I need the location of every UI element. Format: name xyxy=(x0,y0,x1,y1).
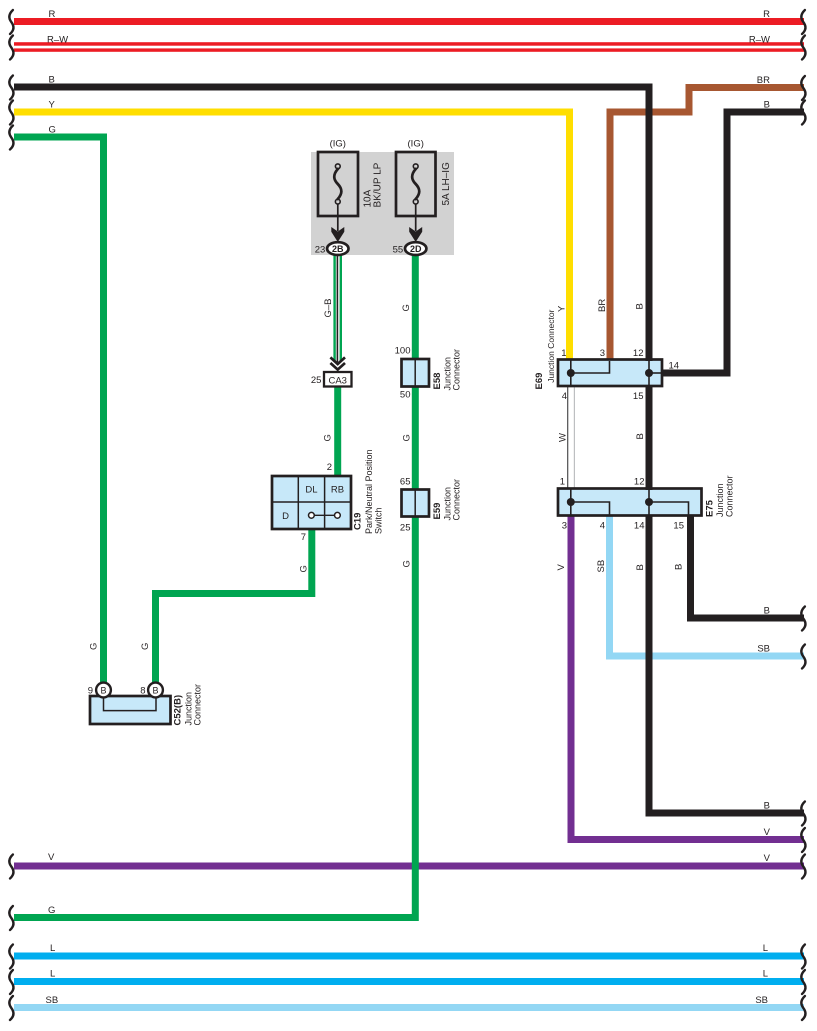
svg-text:1: 1 xyxy=(561,348,566,359)
E75 pin 1 label xyxy=(560,477,565,488)
E69 junction dot pin 12 xyxy=(645,369,653,377)
C19 cell label RB xyxy=(331,485,344,496)
break symbol B right mid xyxy=(801,607,805,631)
wire G-B (green-black) fuse 2B to CA3 xyxy=(333,253,342,362)
svg-text:V: V xyxy=(764,853,771,864)
svg-text:E59: E59 xyxy=(432,503,443,520)
break symbol Y left xyxy=(9,101,13,125)
svg-text:V: V xyxy=(764,827,771,838)
C52(B) pin 9 label xyxy=(88,686,93,697)
break symbol G left top xyxy=(9,126,13,150)
svg-text:Connector: Connector xyxy=(725,475,735,517)
label V right lower xyxy=(764,853,771,864)
label BR right xyxy=(757,75,770,86)
wire G (green) C19 pin 7 to C52(B) pin 8 xyxy=(156,528,312,684)
E69 internal wire pin12-pin15 xyxy=(648,360,650,386)
svg-text:BR: BR xyxy=(757,75,770,86)
break symbol SB left bottom xyxy=(9,996,13,1020)
junction connector E59 box xyxy=(402,490,430,517)
label SB left bottom xyxy=(46,995,59,1006)
break symbol B right top xyxy=(801,101,805,125)
break symbol BR right xyxy=(801,76,805,100)
svg-text:R–W: R–W xyxy=(749,35,770,46)
wire SB (sky blue) E75 pin 4 to right xyxy=(610,515,805,656)
label B vertical top xyxy=(635,303,646,309)
svg-text:B: B xyxy=(764,100,770,111)
wire R (red) top bus xyxy=(14,18,804,25)
wire V (violet) E75 pin 3 to right xyxy=(571,515,804,840)
svg-text:12: 12 xyxy=(633,348,644,359)
break symbol B right low xyxy=(801,802,805,826)
svg-text:W: W xyxy=(558,433,569,442)
svg-text:G: G xyxy=(402,560,413,567)
svg-text:CA3: CA3 xyxy=(328,375,346,386)
svg-text:G: G xyxy=(89,643,100,650)
E69 pin 1 label xyxy=(561,348,566,359)
wire W (white) E69 pin 4 to E75 pin 1 xyxy=(568,386,575,490)
break symbol V right upper xyxy=(801,828,805,852)
E58 pin 50 label xyxy=(400,389,411,400)
svg-text:B: B xyxy=(764,801,770,812)
label G between E58 E59 xyxy=(402,434,413,441)
svg-text:B: B xyxy=(674,564,685,570)
svg-text:E69: E69 xyxy=(534,373,545,390)
E75 internal link pin1-pin4 xyxy=(571,502,610,515)
svg-text:Junction: Junction xyxy=(715,483,725,517)
svg-text:9: 9 xyxy=(88,686,93,697)
label B between E69 and E75 xyxy=(635,433,646,439)
E59 pin 65 label xyxy=(400,476,411,487)
svg-text:B: B xyxy=(635,433,646,439)
label SB right mid xyxy=(757,644,770,655)
E69 junction dot pin 1/4 xyxy=(567,369,575,377)
double chevron splice arrow xyxy=(330,357,345,372)
label V right upper xyxy=(764,827,771,838)
break symbol L left 2 xyxy=(9,970,13,994)
break symbol SB right bottom xyxy=(801,996,805,1020)
wire V (violet) bottom bus xyxy=(14,863,804,870)
svg-text:Switch: Switch xyxy=(374,507,384,534)
junction connector E59 label xyxy=(432,479,462,521)
wire G (green) fuse 2D through E58/E59 to bottom bus xyxy=(14,253,415,918)
junction connector E69 label xyxy=(534,309,556,389)
svg-text:14: 14 xyxy=(669,360,680,371)
E69 internal link pin12-pin14 xyxy=(649,372,663,374)
svg-text:100: 100 xyxy=(395,346,411,357)
break symbol L left 1 xyxy=(9,945,13,969)
E75 internal wire pin1-pin3 xyxy=(570,489,572,515)
svg-text:B: B xyxy=(152,685,158,695)
label R-W right xyxy=(749,35,770,46)
label R right xyxy=(763,9,770,20)
break symbol L right 2 xyxy=(801,970,805,994)
label SB right bottom xyxy=(755,995,768,1006)
junction connector E58 label xyxy=(432,349,462,391)
svg-text:12: 12 xyxy=(634,477,645,488)
svg-text:SB: SB xyxy=(596,560,607,573)
wire Y (yellow) to E69 pin 1 xyxy=(14,112,570,361)
svg-text:G: G xyxy=(402,434,413,441)
E75 pin 14 label xyxy=(634,520,645,531)
svg-text:SB: SB xyxy=(757,644,770,655)
break symbol V right lower xyxy=(801,855,805,879)
park/neutral position switch C19 box xyxy=(272,476,351,529)
label G on C52 pin8 wire xyxy=(140,643,151,650)
C52(B) pin 8 terminal circle B xyxy=(148,683,163,698)
break symbol G left bottom xyxy=(9,906,13,930)
E75 internal wire pin12-pin14 xyxy=(648,489,650,515)
junction connector E75 box xyxy=(558,489,702,516)
svg-text:3: 3 xyxy=(562,520,567,531)
label G left top xyxy=(49,125,56,136)
C52(B) pin 8 label xyxy=(140,686,145,697)
label G on pin7 wire xyxy=(299,565,310,572)
label G above E58 xyxy=(401,304,412,311)
svg-text:G: G xyxy=(401,304,412,311)
label L right 2 xyxy=(763,969,768,980)
E58 pin 100 label xyxy=(395,346,411,357)
svg-text:2B: 2B xyxy=(332,244,344,254)
svg-text:Park/Neutral Position: Park/Neutral Position xyxy=(364,449,374,534)
svg-text:Connector: Connector xyxy=(452,479,462,521)
fuse 5A LH-IG symbol xyxy=(412,164,419,204)
wire BR (brown) from right to E69 pin 3 xyxy=(610,88,804,362)
E59 pin 25 label xyxy=(400,523,411,534)
svg-text:G: G xyxy=(49,125,56,136)
junction connector E69 box xyxy=(558,360,662,387)
label B right mid xyxy=(764,606,770,617)
fuse 5A label (IG) xyxy=(408,139,424,150)
wire SB (sky blue) bottom bus xyxy=(14,1004,804,1011)
svg-text:B: B xyxy=(764,606,770,617)
break symbol R right xyxy=(801,10,805,34)
E75 pin 15 label xyxy=(673,520,684,531)
C52(B) pin 9 terminal circle B xyxy=(96,683,111,698)
label G left bottom xyxy=(48,905,55,916)
junction connector C52(B) box xyxy=(90,696,171,724)
E69 pin 3 label xyxy=(600,348,605,359)
svg-text:R: R xyxy=(49,9,56,20)
svg-text:Y: Y xyxy=(49,100,56,111)
label Y left xyxy=(49,100,56,111)
label B below E75 pin14 xyxy=(635,564,646,570)
svg-text:B: B xyxy=(49,75,55,86)
E75 pin 4 label xyxy=(600,520,605,531)
E69 pin 4 label xyxy=(562,391,567,402)
pin number 55 xyxy=(393,244,404,255)
wire B (black) main bus to E69 pin 12 xyxy=(14,87,649,361)
label G on C52 pin9 wire xyxy=(89,643,100,650)
break symbol L right 1 xyxy=(801,945,805,969)
C19 switch contacts xyxy=(309,512,341,518)
svg-text:23: 23 xyxy=(315,244,326,255)
svg-text:BR: BR xyxy=(597,299,608,312)
svg-text:50: 50 xyxy=(400,389,411,400)
break symbol B left xyxy=(9,76,13,100)
svg-text:Connector: Connector xyxy=(193,684,203,726)
pin number 23 xyxy=(315,244,326,255)
svg-text:25: 25 xyxy=(311,375,322,386)
label B left xyxy=(49,75,55,86)
E69 pin 15 label xyxy=(633,391,644,402)
svg-text:L: L xyxy=(50,943,55,954)
svg-text:25: 25 xyxy=(400,523,411,534)
svg-text:SB: SB xyxy=(755,995,768,1006)
E75 junction dot pin 12 xyxy=(645,498,653,506)
label B below E75 pin15 xyxy=(674,564,685,570)
svg-text:E58: E58 xyxy=(432,373,443,390)
svg-text:C19: C19 xyxy=(353,513,364,530)
svg-text:3: 3 xyxy=(600,348,605,359)
svg-text:1: 1 xyxy=(560,477,565,488)
svg-text:G: G xyxy=(140,643,151,650)
connector pin 23 oval 2B xyxy=(327,242,348,255)
E69 internal link pin1-pin3 xyxy=(571,361,610,373)
svg-text:DL: DL xyxy=(305,485,317,496)
break symbol R left xyxy=(9,10,13,34)
wire G (green) left branch to C52(B) pin 9 xyxy=(14,137,104,684)
connector pin 55 oval 2D xyxy=(405,242,426,255)
wire L (light blue) bus 2 xyxy=(14,978,804,985)
label Y vertical xyxy=(557,305,568,312)
fuse 5A output lead xyxy=(415,204,417,231)
E75 pin 3 label xyxy=(562,520,567,531)
break symbol R-W left xyxy=(9,36,13,60)
svg-text:Y: Y xyxy=(557,305,568,312)
label R-W left xyxy=(47,35,68,46)
label R left xyxy=(49,9,56,20)
junction connector C52(B) label xyxy=(173,684,203,726)
svg-text:B: B xyxy=(100,685,106,695)
svg-text:Junction Connector: Junction Connector xyxy=(546,309,556,382)
wire B (black) E75 pin 14 to right xyxy=(649,515,804,814)
svg-text:R: R xyxy=(763,9,770,20)
svg-text:D: D xyxy=(282,511,289,522)
svg-text:15: 15 xyxy=(673,520,684,531)
svg-text:(IG): (IG) xyxy=(330,139,346,150)
pin number 25 (CA3) xyxy=(311,375,322,386)
svg-text:BK/UP LP: BK/UP LP xyxy=(372,162,383,207)
svg-text:G–B: G–B xyxy=(323,298,334,317)
fuse 5A value label 5A LH-IG xyxy=(441,162,452,206)
E75 pin 12 label xyxy=(634,477,645,488)
wire B (black) E75 pin 15 to right xyxy=(691,516,805,619)
label BR vertical xyxy=(597,299,608,312)
svg-text:L: L xyxy=(50,969,55,980)
switch C19 label xyxy=(353,449,384,534)
wire B (black) right top to E69 pin 14 xyxy=(662,112,804,373)
fuse 5A LH-IG body xyxy=(396,152,436,216)
svg-text:G: G xyxy=(323,434,334,441)
svg-text:5A LH–IG: 5A LH–IG xyxy=(441,162,452,206)
wire L (light blue) bus 1 xyxy=(14,953,804,960)
C19 pin 7 label xyxy=(301,532,306,543)
svg-text:RB: RB xyxy=(331,485,344,496)
E75 internal link pin12-pin15 xyxy=(649,502,689,515)
svg-text:L: L xyxy=(763,969,768,980)
svg-text:G: G xyxy=(299,565,310,572)
svg-text:L: L xyxy=(763,943,768,954)
label W vertical xyxy=(558,433,569,442)
svg-text:8: 8 xyxy=(140,686,145,697)
wire R-W (red-white) bus xyxy=(14,42,804,52)
C19 pin 2 label xyxy=(327,462,332,473)
break symbol SB right mid xyxy=(801,645,805,669)
svg-text:G: G xyxy=(48,905,55,916)
label L left 1 xyxy=(50,943,55,954)
C19 cell label DL xyxy=(305,485,317,496)
E69 internal wire pin1-pin4 xyxy=(570,360,572,386)
fuse panel gray background xyxy=(311,152,454,255)
E69 pin 14 label xyxy=(669,360,680,371)
label G below E59 xyxy=(402,560,413,567)
wire G (green) CA3 to C19 pin 2 xyxy=(334,385,341,477)
svg-text:B: B xyxy=(635,564,646,570)
label L left 2 xyxy=(50,969,55,980)
C19 cell label D xyxy=(282,511,289,522)
svg-text:2: 2 xyxy=(327,462,332,473)
svg-text:55: 55 xyxy=(393,244,404,255)
junction connector E58 box xyxy=(402,359,430,387)
break symbol V left xyxy=(9,855,13,879)
fuse 10A BK/UP LP symbol xyxy=(334,164,341,204)
svg-text:SB: SB xyxy=(46,995,59,1006)
label B right low xyxy=(764,801,770,812)
svg-text:4: 4 xyxy=(600,520,605,531)
label B right top xyxy=(764,100,770,111)
svg-text:2D: 2D xyxy=(410,244,422,254)
fuse 5A arrow xyxy=(409,227,422,242)
E75 junction dot pin 1 xyxy=(567,498,575,506)
label L right 1 xyxy=(763,943,768,954)
label V below E75 xyxy=(556,564,567,571)
svg-text:4: 4 xyxy=(562,391,567,402)
svg-text:E75: E75 xyxy=(705,499,716,517)
label V left xyxy=(48,852,55,863)
svg-text:Connector: Connector xyxy=(452,349,462,391)
svg-text:(IG): (IG) xyxy=(408,139,424,150)
wire B (black) E69 pin 15 to E75 pin 12 xyxy=(646,386,653,491)
break symbol R-W right xyxy=(801,36,805,60)
svg-text:65: 65 xyxy=(400,476,411,487)
E69 pin 12 label xyxy=(633,348,644,359)
label G-B vertical xyxy=(323,298,334,317)
fuse 10A arrow xyxy=(331,227,344,242)
svg-text:7: 7 xyxy=(301,532,306,543)
svg-text:15: 15 xyxy=(633,391,644,402)
svg-text:V: V xyxy=(48,852,55,863)
svg-text:14: 14 xyxy=(634,520,645,531)
fuse 10A value label 10A BK/UP LP xyxy=(363,162,384,207)
svg-text:V: V xyxy=(556,564,567,571)
fuse 10A output lead xyxy=(337,204,339,231)
junction connector E75 label xyxy=(705,475,735,517)
connector CA3 box xyxy=(324,372,352,387)
fuse 10A label (IG) xyxy=(330,139,346,150)
svg-text:B: B xyxy=(635,303,646,309)
label SB below E75 xyxy=(596,560,607,573)
fuse 10A BK/UP LP body xyxy=(318,152,358,216)
svg-text:C52(B): C52(B) xyxy=(173,695,184,726)
svg-text:R–W: R–W xyxy=(47,35,68,46)
label G on CA3 wire xyxy=(323,434,334,441)
